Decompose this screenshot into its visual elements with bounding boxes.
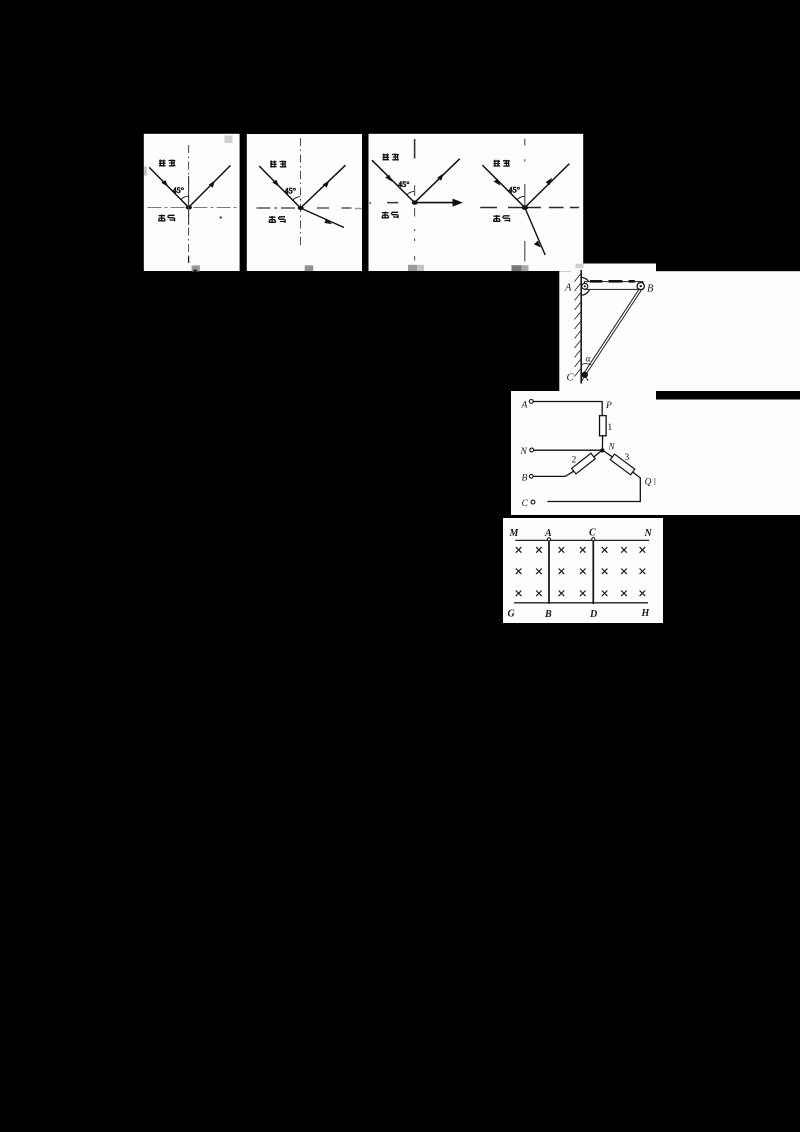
45 degree arc [293,197,301,201]
svg-text:H: H [641,608,651,619]
interface line left (dash) [257,207,299,209]
reflected ray [301,165,346,208]
scan blob bottom [192,265,200,271]
scan blob wall top [576,264,584,269]
45 arc fig4 [517,196,525,200]
refracted ray fig4 [525,208,545,256]
label glass fig4 (CJK blob) [494,160,510,167]
rod B-C (two lines) [584,289,642,375]
cross field marks [516,547,645,596]
svg-text:A: A [544,528,552,539]
svg-text:N: N [520,447,528,457]
incident arrowhead [161,180,168,187]
svg-text:Q: Q [645,478,652,488]
incident arrowhead fig4 [494,179,501,186]
label air (CJK blob) [269,216,285,223]
svg-text:B: B [647,284,654,295]
svg-text:C: C [522,499,529,509]
junction blob [298,206,304,210]
svg-text:B: B [544,609,552,620]
wire resistor1 to node [601,436,603,449]
wall line [580,270,582,384]
junction blob fig4 [522,205,528,210]
scan fleck left [144,167,147,176]
svg-text:3: 3 [625,453,630,463]
wall hatching [575,274,581,377]
label air (CJK blob) [158,215,174,222]
node N dot [600,448,604,452]
wire node to resistor3 [603,451,612,457]
rail GH bottom [514,602,648,604]
refracted ray [301,208,345,228]
45 arc fig3 [407,191,415,195]
interface line (horizontal dash-dot) [148,207,238,209]
incident ray fig4 [482,165,524,207]
terminal A [529,400,533,404]
svg-text:45°: 45° [285,187,297,196]
svg-text:G: G [508,609,516,620]
incident arrowhead [272,180,279,187]
normal solid segment near vertex [188,176,190,225]
label air fig3 (CJK blob) [382,212,398,219]
reflected ray fig4 [525,164,570,208]
reflected ray fig3 [415,159,460,203]
black notch top-right [656,391,800,400]
panel C+D background [369,134,584,271]
label air fig4 (CJK blob) [493,215,509,222]
ring at C [592,538,595,541]
interface line fig3 left (dashes) [370,202,404,204]
panel A background [144,134,240,271]
scan dot [220,217,223,219]
svg-text:45°: 45° [173,186,185,195]
scan blob bottom fig4 [512,265,522,271]
wire resistor2 to B corner [534,471,574,476]
reflected arrowhead [209,180,216,188]
bar top thick dashes [590,280,635,283]
svg-text:45°: 45° [509,185,521,194]
junction blob [186,206,192,210]
junction blob fig3 [412,200,418,204]
incident ray fig3 [372,160,415,202]
svg-text:B: B [522,473,528,483]
wire N to node [534,449,600,451]
normal line (vertical dash-dot) [300,138,302,246]
svg-text:N: N [644,528,653,539]
svg-text:45°: 45° [398,180,410,189]
resistor 2 (rotated) [572,453,596,474]
reflected ray [189,165,231,207]
reflected arrowhead fig3 [437,173,444,180]
circuit background [511,391,800,515]
svg-text:2: 2 [572,456,577,466]
incident arrowhead fig3 [385,175,392,182]
ring at A [547,538,550,541]
svg-text:A: A [564,283,572,294]
svg-text:P: P [605,401,612,411]
panel B background [247,134,362,271]
incident ray [259,166,300,208]
pin A mount arc [581,278,590,296]
wall figure background [559,271,800,391]
wire resistor3 to Q corner and down [548,472,640,502]
svg-text:N: N [608,442,616,452]
scan blob bottom fig3 [408,265,417,271]
label glass fig3 (CJK blob) [383,154,399,161]
terminal B [529,474,533,478]
scan blob bottom [305,265,314,271]
pin A [582,283,588,289]
normal line fig3 (vertical) [414,139,416,159]
label glass (CJK blob) [159,160,175,167]
scan blob top-right [225,136,233,144]
wire node to resistor2 [594,451,602,457]
bar AB [548,539,550,604]
resistor 3 (rotated) [610,454,634,475]
normal line bottom tick [188,257,190,264]
normal line fig4 (dash-dot vertical) [524,139,526,262]
interface line right (sparse dashes) [317,207,352,209]
svg-text:C: C [589,528,596,539]
refracted arrowhead [324,218,332,224]
svg-text:A: A [521,401,528,411]
alpha arc [582,364,592,365]
refracted arrowhead fig4 [534,241,541,248]
svg-text:M: M [509,528,520,539]
terminal N [530,448,534,452]
scan tick right of Q [654,478,656,486]
bar A-B [585,282,644,290]
reflected arrowhead [323,180,330,187]
label glass (CJK blob) [270,161,286,168]
surface ray arrowhead [453,199,464,207]
field background [503,518,663,623]
bar CD [592,539,594,604]
45 degree arc [181,196,189,200]
terminal C [531,500,535,504]
interface line fig4 (dashed horizontal) [480,207,579,209]
svg-text:1: 1 [608,423,613,433]
svg-text:C: C [567,373,575,384]
wire A to P corner [533,402,602,416]
resistor 1 [600,416,607,436]
normal line (vertical dash-dot) [188,145,190,262]
rail MN top [515,539,649,541]
reflected arrowhead fig4 [546,178,553,185]
pivot C blob [582,372,588,378]
pin B [637,283,644,290]
svg-text:D: D [589,609,597,620]
interface gray dash far right [355,208,362,210]
surface ray (critical refraction) [415,202,456,204]
incident ray [149,167,188,207]
